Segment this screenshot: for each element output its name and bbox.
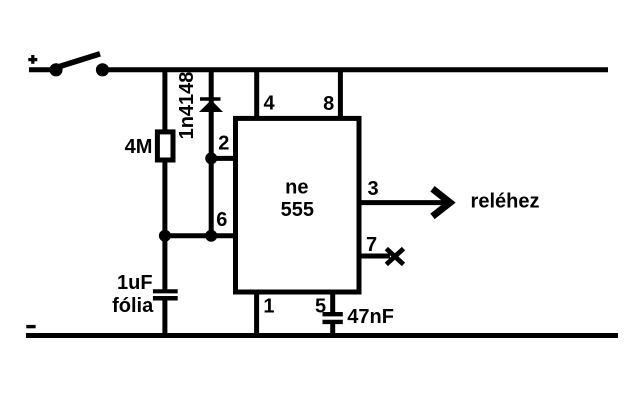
svg-text:1uF: 1uF [117, 272, 153, 294]
svg-text:reléhez: reléhez [471, 191, 540, 213]
svg-text:4: 4 [263, 93, 275, 115]
svg-text:47nF: 47nF [347, 306, 394, 328]
svg-text:3: 3 [367, 178, 378, 200]
svg-text:8: 8 [323, 93, 334, 115]
svg-text:ne: ne [285, 177, 308, 199]
svg-text:1n4148: 1n4148 [176, 72, 198, 140]
svg-text:7: 7 [366, 234, 377, 256]
svg-text:2: 2 [218, 132, 229, 154]
svg-text:555: 555 [281, 199, 314, 221]
svg-text:4M: 4M [125, 136, 153, 158]
svg-text:1: 1 [263, 296, 274, 318]
svg-text:fólia: fólia [112, 295, 154, 317]
svg-text:6: 6 [216, 209, 227, 231]
svg-text:5: 5 [315, 296, 326, 318]
